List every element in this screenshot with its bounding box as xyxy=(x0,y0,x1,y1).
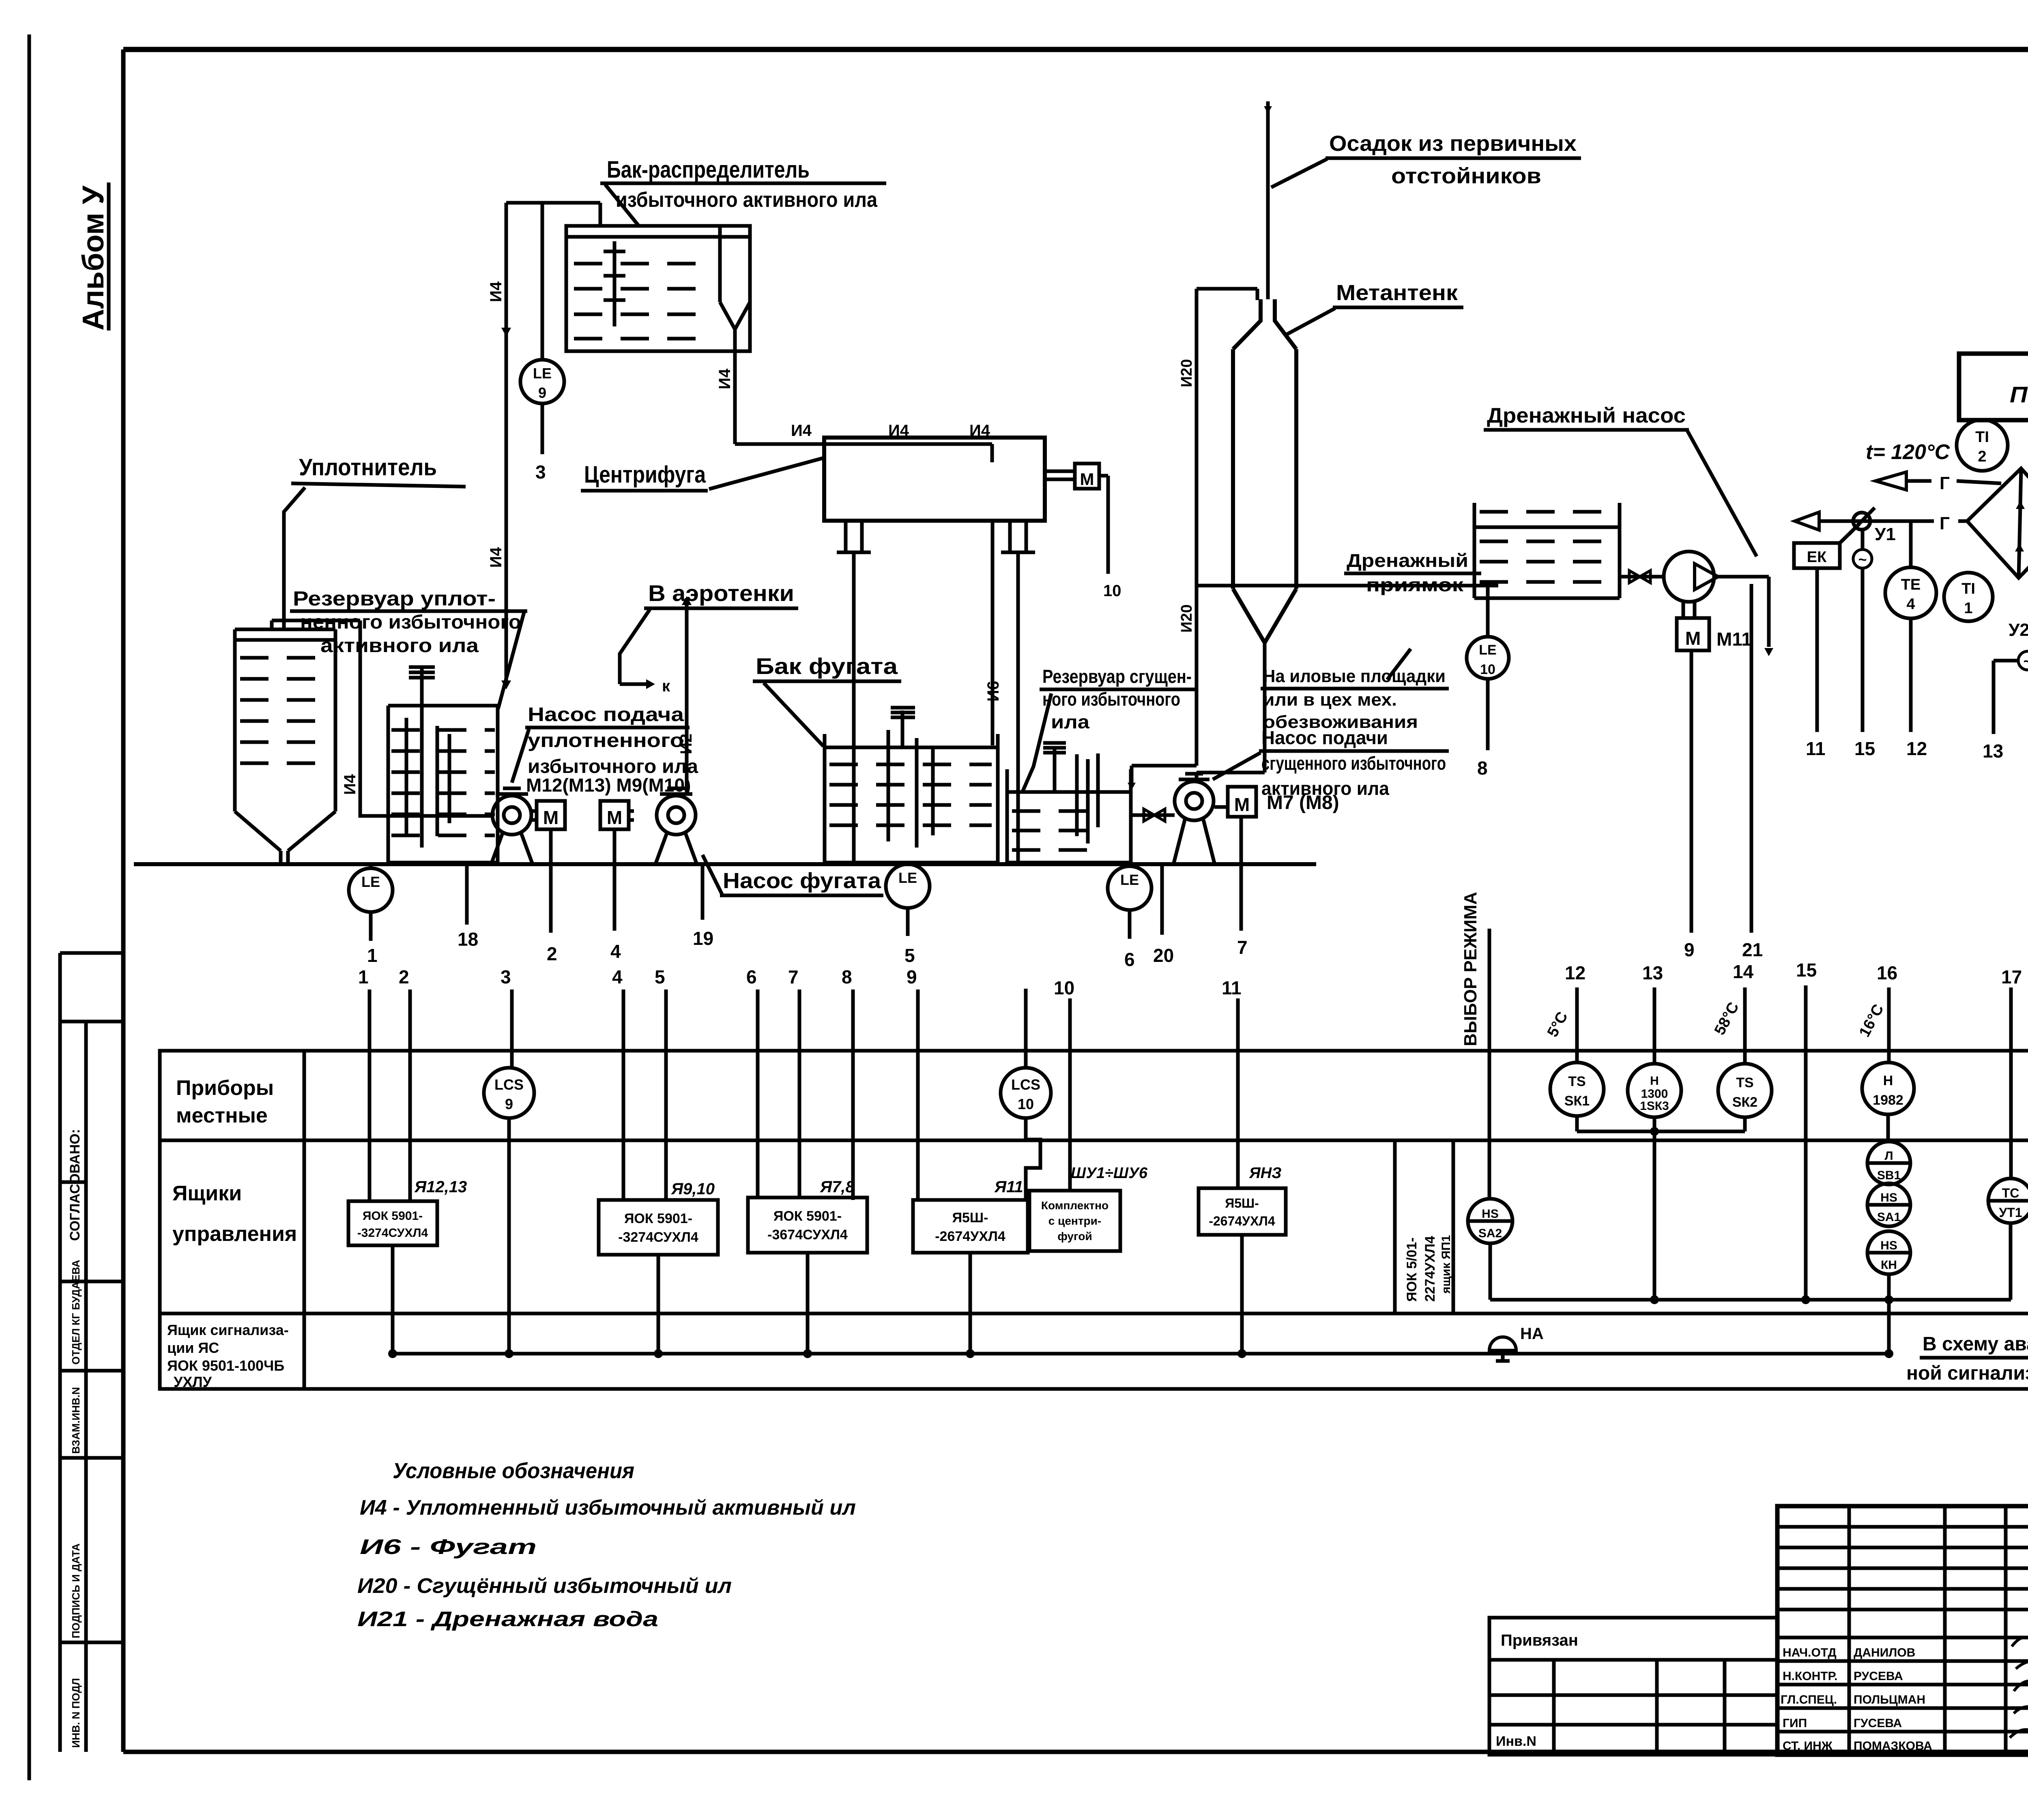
svg-text:М: М xyxy=(543,807,559,828)
svg-text:И6 - Фугат: И6 - Фугат xyxy=(360,1535,537,1559)
wire 21 xyxy=(1750,584,1753,933)
svg-text:5: 5 xyxy=(655,966,665,987)
svg-text:4: 4 xyxy=(612,966,623,987)
svg-text:12: 12 xyxy=(1565,962,1585,983)
svg-text:LСS: LСS xyxy=(494,1076,524,1093)
wire 1 upper xyxy=(369,912,373,941)
svg-text:Инв.N: Инв.N xyxy=(1496,1734,1536,1749)
svg-text:4: 4 xyxy=(610,941,621,962)
svg-text:ТI: ТI xyxy=(1961,580,1975,597)
svg-text:ШУ1÷ШУ6: ШУ1÷ШУ6 xyxy=(1071,1165,1148,1182)
wire 10 into table xyxy=(1068,998,1072,1191)
tank: rezervuar sgushchennogo ila xyxy=(1005,769,1009,863)
svg-text:И20: И20 xyxy=(1178,359,1195,387)
wire 2 into table xyxy=(408,989,412,1201)
wire 17 xyxy=(2009,987,2013,1178)
svg-text:21: 21 xyxy=(1742,939,1763,960)
sub-bus under TS circles xyxy=(1577,1130,1745,1133)
instrument HS SA1 xyxy=(1867,1183,1910,1226)
wire 9 into table xyxy=(916,989,920,1200)
title block outer xyxy=(1777,1506,2028,1755)
svg-text:ПОЛЬЦМАН: ПОЛЬЦМАН xyxy=(1854,1693,1925,1706)
svg-text:И20: И20 xyxy=(1178,604,1195,633)
signatures squiggles xyxy=(2010,1636,2028,1738)
svg-text:-3274СУХЛ4: -3274СУХЛ4 xyxy=(357,1226,428,1240)
svg-text:сгущенного избыточного: сгущенного избыточного xyxy=(1261,753,1446,774)
tank: bak-raspredelitel xyxy=(566,226,750,351)
svg-text:приямок: приямок xyxy=(1366,574,1464,595)
wire 16 with 16C xyxy=(1887,987,1891,1062)
wire 8 into table xyxy=(851,989,855,1200)
tank: bak fugata xyxy=(823,734,827,863)
svg-text:-3274СУХЛ4: -3274СУХЛ4 xyxy=(618,1230,698,1245)
svg-text:11: 11 xyxy=(1222,977,1242,998)
wire 12 with 5C xyxy=(1575,987,1579,1062)
wire 20 xyxy=(1160,864,1164,935)
leader to tank xyxy=(605,185,639,226)
svg-text:Н: Н xyxy=(1883,1073,1893,1088)
svg-text:КН: КН xyxy=(1881,1258,1897,1272)
suction with valve xyxy=(1620,575,1664,579)
wire 15 from U1 actuator xyxy=(1861,568,1865,732)
instrument A SB1 xyxy=(1867,1142,1910,1185)
svg-text:И4: И4 xyxy=(341,774,359,795)
wire 7 xyxy=(1240,817,1243,931)
svg-text:SА1: SА1 xyxy=(1877,1210,1901,1224)
svg-text:М: М xyxy=(1685,628,1701,649)
wire 10 from centrifuge motor xyxy=(1099,474,1108,478)
svg-text:Помещение + 16°С: Помещение + 16°С xyxy=(2010,382,2028,407)
wire 13 xyxy=(1653,987,1656,1064)
svg-text:М11: М11 xyxy=(1716,629,1752,650)
svg-text:ГЛ.СПЕЦ.: ГЛ.СПЕЦ. xyxy=(1781,1693,1837,1706)
svg-text:Альбом У: Альбом У xyxy=(76,185,110,331)
svg-text:ДАНИЛОВ: ДАНИЛОВ xyxy=(1854,1646,1915,1659)
metantenk vessel xyxy=(1231,349,1235,589)
instrument N 1982 xyxy=(1862,1062,1914,1114)
motor M9 box xyxy=(600,801,629,829)
svg-text:12: 12 xyxy=(1906,738,1927,759)
svg-text:НАЧ.ОТД: НАЧ.ОТД xyxy=(1783,1646,1837,1659)
wire 14 with 58C xyxy=(1743,987,1747,1064)
svg-text:2: 2 xyxy=(547,943,557,964)
svg-text:Дренажный насос: Дренажный насос xyxy=(1487,404,1686,427)
svg-text:1982: 1982 xyxy=(1873,1092,1903,1108)
svg-text:Дренажный: Дренажный xyxy=(1347,550,1468,571)
svg-text:М: М xyxy=(607,807,622,828)
svg-text:Центрифуга: Центрифуга xyxy=(584,461,706,488)
signal bus wire in row 3 xyxy=(393,1352,1889,1356)
svg-text:~: ~ xyxy=(1858,551,1867,568)
instrument LE9 xyxy=(520,360,564,403)
svg-text:13: 13 xyxy=(1642,962,1663,983)
svg-text:М: М xyxy=(1234,794,1250,815)
svg-text:Я11: Я11 xyxy=(994,1178,1023,1196)
bell HA xyxy=(1489,1337,1516,1350)
svg-text:SК1: SК1 xyxy=(1564,1093,1590,1109)
level sense line to LE9 xyxy=(541,203,544,360)
svg-text:ОТДЕЛ КГ БУДАЕВА: ОТДЕЛ КГ БУДАЕВА xyxy=(70,1260,82,1365)
drain pump M11 xyxy=(1664,552,1714,602)
instrument LE10 xyxy=(1486,586,1490,637)
instrument LCS9 xyxy=(484,1068,534,1118)
svg-text:19: 19 xyxy=(693,928,713,949)
box Ya5Sh-2674 (YaNZ) xyxy=(1199,1188,1286,1235)
svg-text:9: 9 xyxy=(538,384,546,401)
svg-text:18: 18 xyxy=(458,929,478,950)
svg-text:активного ила: активного ила xyxy=(1261,778,1389,799)
svg-text:И4: И4 xyxy=(487,547,505,568)
instrument TC UT1 xyxy=(1988,1178,2028,1223)
wire 5 into table xyxy=(664,989,668,1200)
svg-text:ЯОК 9501-100ЧБ: ЯОК 9501-100ЧБ xyxy=(167,1357,284,1374)
equipment baseline xyxy=(134,862,1316,866)
svg-text:Я5Ш-: Я5Ш- xyxy=(952,1210,988,1225)
svg-text:1300: 1300 xyxy=(1641,1087,1668,1101)
valve U1 with actuator xyxy=(1853,513,1870,530)
tank: uplotnitel xyxy=(235,628,335,631)
rotated cell YAOK 5101 xyxy=(1393,1140,1397,1313)
svg-text:LЕ: LЕ xyxy=(1120,871,1139,888)
svg-text:11: 11 xyxy=(1806,738,1826,759)
svg-text:10: 10 xyxy=(1054,977,1074,998)
svg-text:10: 10 xyxy=(1103,582,1121,600)
wire 19 xyxy=(701,864,705,920)
wire 2 xyxy=(549,829,553,933)
svg-text:1: 1 xyxy=(358,966,369,987)
svg-text:Привязан: Привязан xyxy=(1501,1631,1578,1649)
svg-text:Приборы: Приборы xyxy=(176,1076,274,1100)
instrument LE5 xyxy=(906,864,910,866)
svg-text:ЯОК 5901-: ЯОК 5901- xyxy=(773,1208,842,1224)
svg-text:4: 4 xyxy=(1906,596,1915,613)
pipe I4 from tank chute to centrifuge xyxy=(733,329,737,444)
svg-text:И4: И4 xyxy=(716,368,734,389)
svg-text:ЯОК 5901-: ЯОК 5901- xyxy=(624,1211,692,1226)
svg-text:SА2: SА2 xyxy=(1478,1227,1502,1240)
svg-text:SК2: SК2 xyxy=(1732,1095,1757,1110)
wire 7 into table xyxy=(798,989,801,1198)
svg-text:ПОДПИСЬ И ДАТА: ПОДПИСЬ И ДАТА xyxy=(70,1543,82,1638)
box komplektno s tsentrifugoj xyxy=(1029,1191,1120,1251)
svg-text:Ящик сигнализа-: Ящик сигнализа- xyxy=(167,1322,289,1338)
svg-text:НS: НS xyxy=(1482,1207,1499,1221)
instrument LCS10 xyxy=(1024,989,1028,1068)
svg-text:LСS: LСS xyxy=(1011,1076,1040,1093)
centrifuge legs xyxy=(844,521,848,552)
pump M12(M13) xyxy=(492,796,531,835)
svg-text:или в цех мех.: или в цех мех. xyxy=(1263,690,1397,710)
svg-text:ГУСЕВА: ГУСЕВА xyxy=(1854,1717,1902,1730)
svg-text:5: 5 xyxy=(904,945,915,966)
centrifuge motor box xyxy=(1045,470,1075,473)
svg-text:2: 2 xyxy=(399,966,409,987)
pipe I20 from metantenk xyxy=(1195,289,1199,766)
svg-text:Осадок из первичных: Осадок из первичных xyxy=(1329,131,1577,156)
svg-text:20: 20 xyxy=(1153,945,1174,966)
svg-text:У1: У1 xyxy=(1875,524,1896,544)
svg-text:7: 7 xyxy=(788,966,799,987)
svg-text:управления: управления xyxy=(172,1222,297,1246)
svg-text:ЯНЗ: ЯНЗ xyxy=(1249,1165,1282,1182)
svg-text:Бак фугата: Бак фугата xyxy=(756,653,898,679)
svg-text:17: 17 xyxy=(2001,966,2022,987)
svg-text:1: 1 xyxy=(1964,600,1972,617)
svg-text:И6: И6 xyxy=(984,681,1002,702)
fugat pipe I6 from centrifuge xyxy=(991,521,995,745)
instrument TI1 lower xyxy=(1944,573,1993,621)
svg-text:Резервуар сгущен-: Резервуар сгущен- xyxy=(1042,666,1192,687)
svg-text:И4: И4 xyxy=(487,281,505,302)
wire 1 into table xyxy=(368,989,372,1201)
box YAOK 5901-3274 (Ya9,10) xyxy=(599,1200,718,1255)
discharge line xyxy=(1714,575,1769,579)
svg-text:ЯОК 5901-: ЯОК 5901- xyxy=(363,1209,423,1223)
svg-text:И4 - Уплотненный избыточный а: И4 - Уплотненный избыточный активный ил xyxy=(360,1496,856,1520)
wire 4 xyxy=(613,829,617,931)
svg-text:Насос подача: Насос подача xyxy=(528,704,684,725)
heat exchanger diamond xyxy=(1967,468,2028,578)
svg-text:НS: НS xyxy=(1880,1239,1897,1252)
svg-text:У2: У2 xyxy=(2009,620,2028,640)
svg-text:Условные обозначения: Условные обозначения xyxy=(393,1459,634,1483)
svg-text:ящик ЯП1: ящик ЯП1 xyxy=(1439,1235,1453,1294)
instrument TS SK2 xyxy=(1718,1064,1772,1117)
wire 15 into bus xyxy=(1804,985,1808,1300)
svg-text:2: 2 xyxy=(1978,448,1986,465)
box Ya5Sh-2674 (Ya11) xyxy=(913,1200,1028,1253)
svg-text:LЕ: LЕ xyxy=(898,869,917,886)
svg-text:Я12,13: Я12,13 xyxy=(414,1178,467,1196)
pipe I4 down-leg xyxy=(505,203,508,685)
svg-text:УТ1: УТ1 xyxy=(1999,1205,2022,1220)
svg-text:ного избыточного: ного избыточного xyxy=(1042,689,1180,710)
svg-text:Я5Ш-: Я5Ш- xyxy=(1225,1196,1259,1210)
svg-text:ТI: ТI xyxy=(1975,429,1989,446)
svg-text:LЕ: LЕ xyxy=(533,365,552,382)
svg-text:2274УХЛ4: 2274УХЛ4 xyxy=(1422,1236,1438,1302)
tank: rezervuar uplotnennogo ila xyxy=(387,706,390,863)
svg-text:9: 9 xyxy=(907,966,917,987)
wire 18 xyxy=(465,864,469,925)
svg-text:обезвоживания: обезвоживания xyxy=(1263,712,1418,732)
svg-text:Н: Н xyxy=(1650,1074,1659,1088)
svg-text:СТ. ИНЖ: СТ. ИНЖ xyxy=(1783,1739,1833,1753)
tank: drenazhnyj priyamok xyxy=(1473,503,1476,598)
svg-text:10: 10 xyxy=(1480,662,1495,677)
svg-text:7: 7 xyxy=(1237,937,1248,958)
wire 3 into table xyxy=(510,989,514,1068)
svg-text:ТS: ТS xyxy=(1736,1075,1753,1090)
svg-text:ненного избыточного: ненного избыточного xyxy=(300,612,521,633)
instrument N 1300/1SK3 xyxy=(1628,1064,1681,1117)
svg-text:~: ~ xyxy=(2023,653,2028,670)
svg-text:SВ1: SВ1 xyxy=(1877,1169,1901,1182)
instrument LE6 xyxy=(1128,864,1132,868)
svg-text:3: 3 xyxy=(501,966,511,987)
svg-text:активного ила: активного ила xyxy=(320,635,479,657)
room box pomeshchenie xyxy=(1959,354,2028,420)
svg-text:Я9,10: Я9,10 xyxy=(671,1180,715,1198)
instrument HS KM xyxy=(1867,1231,1910,1274)
svg-text:ИНВ. N ПОДЛ: ИНВ. N ПОДЛ xyxy=(70,1678,82,1748)
svg-text:Г: Г xyxy=(1940,473,1950,493)
svg-text:ила: ила xyxy=(1051,711,1089,732)
svg-text:Метантенк: Метантенк xyxy=(1336,281,1458,305)
svg-text:Насос фугата: Насос фугата xyxy=(723,869,881,893)
motor M11 box xyxy=(1682,602,1685,618)
svg-text:с центри-: с центри- xyxy=(1048,1215,1101,1227)
pipe I4 riser from uplotnitel to pump xyxy=(272,619,360,622)
svg-text:уплотненного: уплотненного xyxy=(528,730,684,751)
svg-text:1SК3: 1SК3 xyxy=(1640,1099,1669,1113)
wire 9 xyxy=(1690,650,1693,933)
svg-text:НА: НА xyxy=(1520,1325,1544,1343)
svg-text:отстойников: отстойников xyxy=(1391,164,1541,188)
metantenk bottom outlet to pump M7 xyxy=(1263,643,1267,773)
instrument table frame xyxy=(160,1051,2028,1389)
svg-text:ТЕ: ТЕ xyxy=(1901,576,1921,593)
stamp column grid xyxy=(58,953,62,1752)
svg-text:Бак-распределитель: Бак-распределитель xyxy=(607,157,810,183)
svg-text:6: 6 xyxy=(746,966,757,987)
svg-text:9: 9 xyxy=(505,1096,513,1112)
box YAOK 5901-3674 (Ya7,8) xyxy=(748,1198,867,1253)
svg-text:Комплектно: Комплектно xyxy=(1041,1199,1109,1212)
svg-text:-3674СУХЛ4: -3674СУХЛ4 xyxy=(767,1227,848,1243)
svg-text:16: 16 xyxy=(1877,962,1897,983)
drawing frame border xyxy=(123,47,2028,52)
svg-text:ВЗАМ.ИНВ.N: ВЗАМ.ИНВ.N xyxy=(70,1387,82,1454)
overflow connector at tank top xyxy=(506,201,600,205)
svg-text:СОГЛАСОВАНО:: СОГЛАСОВАНО: xyxy=(67,1129,83,1241)
privyazan table xyxy=(1489,1618,1777,1755)
page left accent line xyxy=(28,34,31,1780)
svg-text:1: 1 xyxy=(367,945,378,966)
instrument LE1 xyxy=(369,864,373,870)
svg-text:На иловые площадки: На иловые площадки xyxy=(1263,666,1446,686)
svg-text:15: 15 xyxy=(1854,738,1875,759)
svg-text:Уплотнитель: Уплотнитель xyxy=(299,454,437,481)
wire 11 from EK xyxy=(1815,568,1819,732)
svg-text:РУСЕВА: РУСЕВА xyxy=(1854,1670,1903,1683)
gas main line with inlet arrow xyxy=(1795,512,1819,530)
motor M7 box xyxy=(1228,787,1256,817)
svg-text:ЕК: ЕК xyxy=(1807,549,1827,566)
svg-text:ТС: ТС xyxy=(2002,1186,2019,1200)
svg-text:8: 8 xyxy=(842,966,852,987)
wire 4 into table xyxy=(622,989,625,1200)
EK box xyxy=(1794,543,1840,568)
control bus row2 xyxy=(1490,1298,2011,1302)
svg-text:НS: НS xyxy=(1880,1191,1897,1204)
svg-text:ВЫБОР РЕЖИМА: ВЫБОР РЕЖИМА xyxy=(1461,892,1480,1046)
svg-text:избыточного ила: избыточного ила xyxy=(528,756,698,777)
svg-text:Резервуар уплот-: Резервуар уплот- xyxy=(293,587,496,610)
svg-text:ЯОК 5/01-: ЯОК 5/01- xyxy=(1404,1237,1420,1302)
upper gas feed line G xyxy=(1875,472,1906,490)
svg-text:ПОМАЗКОВА: ПОМАЗКОВА xyxy=(1854,1739,1932,1753)
motor M12 box xyxy=(537,801,565,829)
svg-text:И21 - Дренажная вода: И21 - Дренажная вода xyxy=(357,1608,658,1631)
instrument TS SK1 xyxy=(1550,1062,1604,1116)
svg-text:ной сигнализации: ной сигнализации xyxy=(1906,1363,2028,1384)
svg-text:LЕ: LЕ xyxy=(361,874,380,890)
svg-text:t= 120°С: t= 120°С xyxy=(1866,440,1951,464)
wire 13 xyxy=(1994,659,2018,663)
svg-text:ции ЯС: ции ЯС xyxy=(167,1339,219,1356)
svg-text:-2674УХЛ4: -2674УХЛ4 xyxy=(935,1229,1005,1244)
svg-text:15: 15 xyxy=(1796,959,1817,981)
box YAOK 5901-3274 (Ya12,13) xyxy=(348,1201,437,1245)
suction from tank with valve xyxy=(1131,813,1175,817)
svg-text:М: М xyxy=(1080,470,1094,489)
svg-text:LЕ: LЕ xyxy=(1479,642,1496,658)
svg-text:Л: Л xyxy=(1884,1149,1893,1163)
svg-text:И4: И4 xyxy=(791,422,812,440)
svg-text:10: 10 xyxy=(1018,1096,1034,1112)
svg-text:УХЛУ: УХЛУ xyxy=(174,1374,212,1390)
svg-text:В схему аварий-: В схему аварий- xyxy=(1923,1333,2028,1355)
discharge pipe I2 to aerotanks xyxy=(685,598,689,793)
instrument HS SA2 xyxy=(1468,1199,1512,1243)
svg-text:9: 9 xyxy=(1684,939,1695,960)
svg-text:ГИП: ГИП xyxy=(1783,1717,1807,1730)
svg-text:Я7,8: Я7,8 xyxy=(820,1178,855,1196)
svg-text:Г: Г xyxy=(1940,513,1950,533)
svg-text:фугой: фугой xyxy=(1057,1230,1092,1243)
svg-text:к: к xyxy=(662,677,670,695)
pump M9(M10) (nasos fugata) xyxy=(657,796,696,835)
wire 6 into table xyxy=(756,989,760,1198)
pump M7(M8) xyxy=(1175,781,1214,820)
svg-text:3: 3 xyxy=(535,461,546,483)
svg-text:ТS: ТS xyxy=(1568,1074,1585,1089)
svg-text:И20 - Сгущённый избыточный ил: И20 - Сгущённый избыточный ил xyxy=(357,1574,732,1598)
pipe to sludge beds xyxy=(1197,584,1498,588)
svg-text:избыточного активного ила: избыточного активного ила xyxy=(616,188,878,212)
svg-text:местные: местные xyxy=(176,1104,268,1127)
svg-text:6: 6 xyxy=(1124,949,1135,970)
sludge riser pipe xyxy=(1266,101,1270,299)
svg-text:В аэротенки: В аэротенки xyxy=(648,580,794,606)
instrument TE4 xyxy=(1909,521,1913,567)
svg-text:Н.КОНТР.: Н.КОНТР. xyxy=(1783,1670,1837,1683)
svg-text:13: 13 xyxy=(1983,740,2003,762)
svg-text:Ящики: Ящики xyxy=(172,1182,242,1205)
svg-text:-2674УХЛ4: -2674УХЛ4 xyxy=(1209,1214,1275,1228)
instrument TI2 xyxy=(1957,420,2008,471)
svg-text:14: 14 xyxy=(1733,961,1754,982)
svg-text:8: 8 xyxy=(1477,758,1488,779)
centrifuge body xyxy=(824,438,1045,521)
wire 11 into table xyxy=(1236,998,1240,1188)
